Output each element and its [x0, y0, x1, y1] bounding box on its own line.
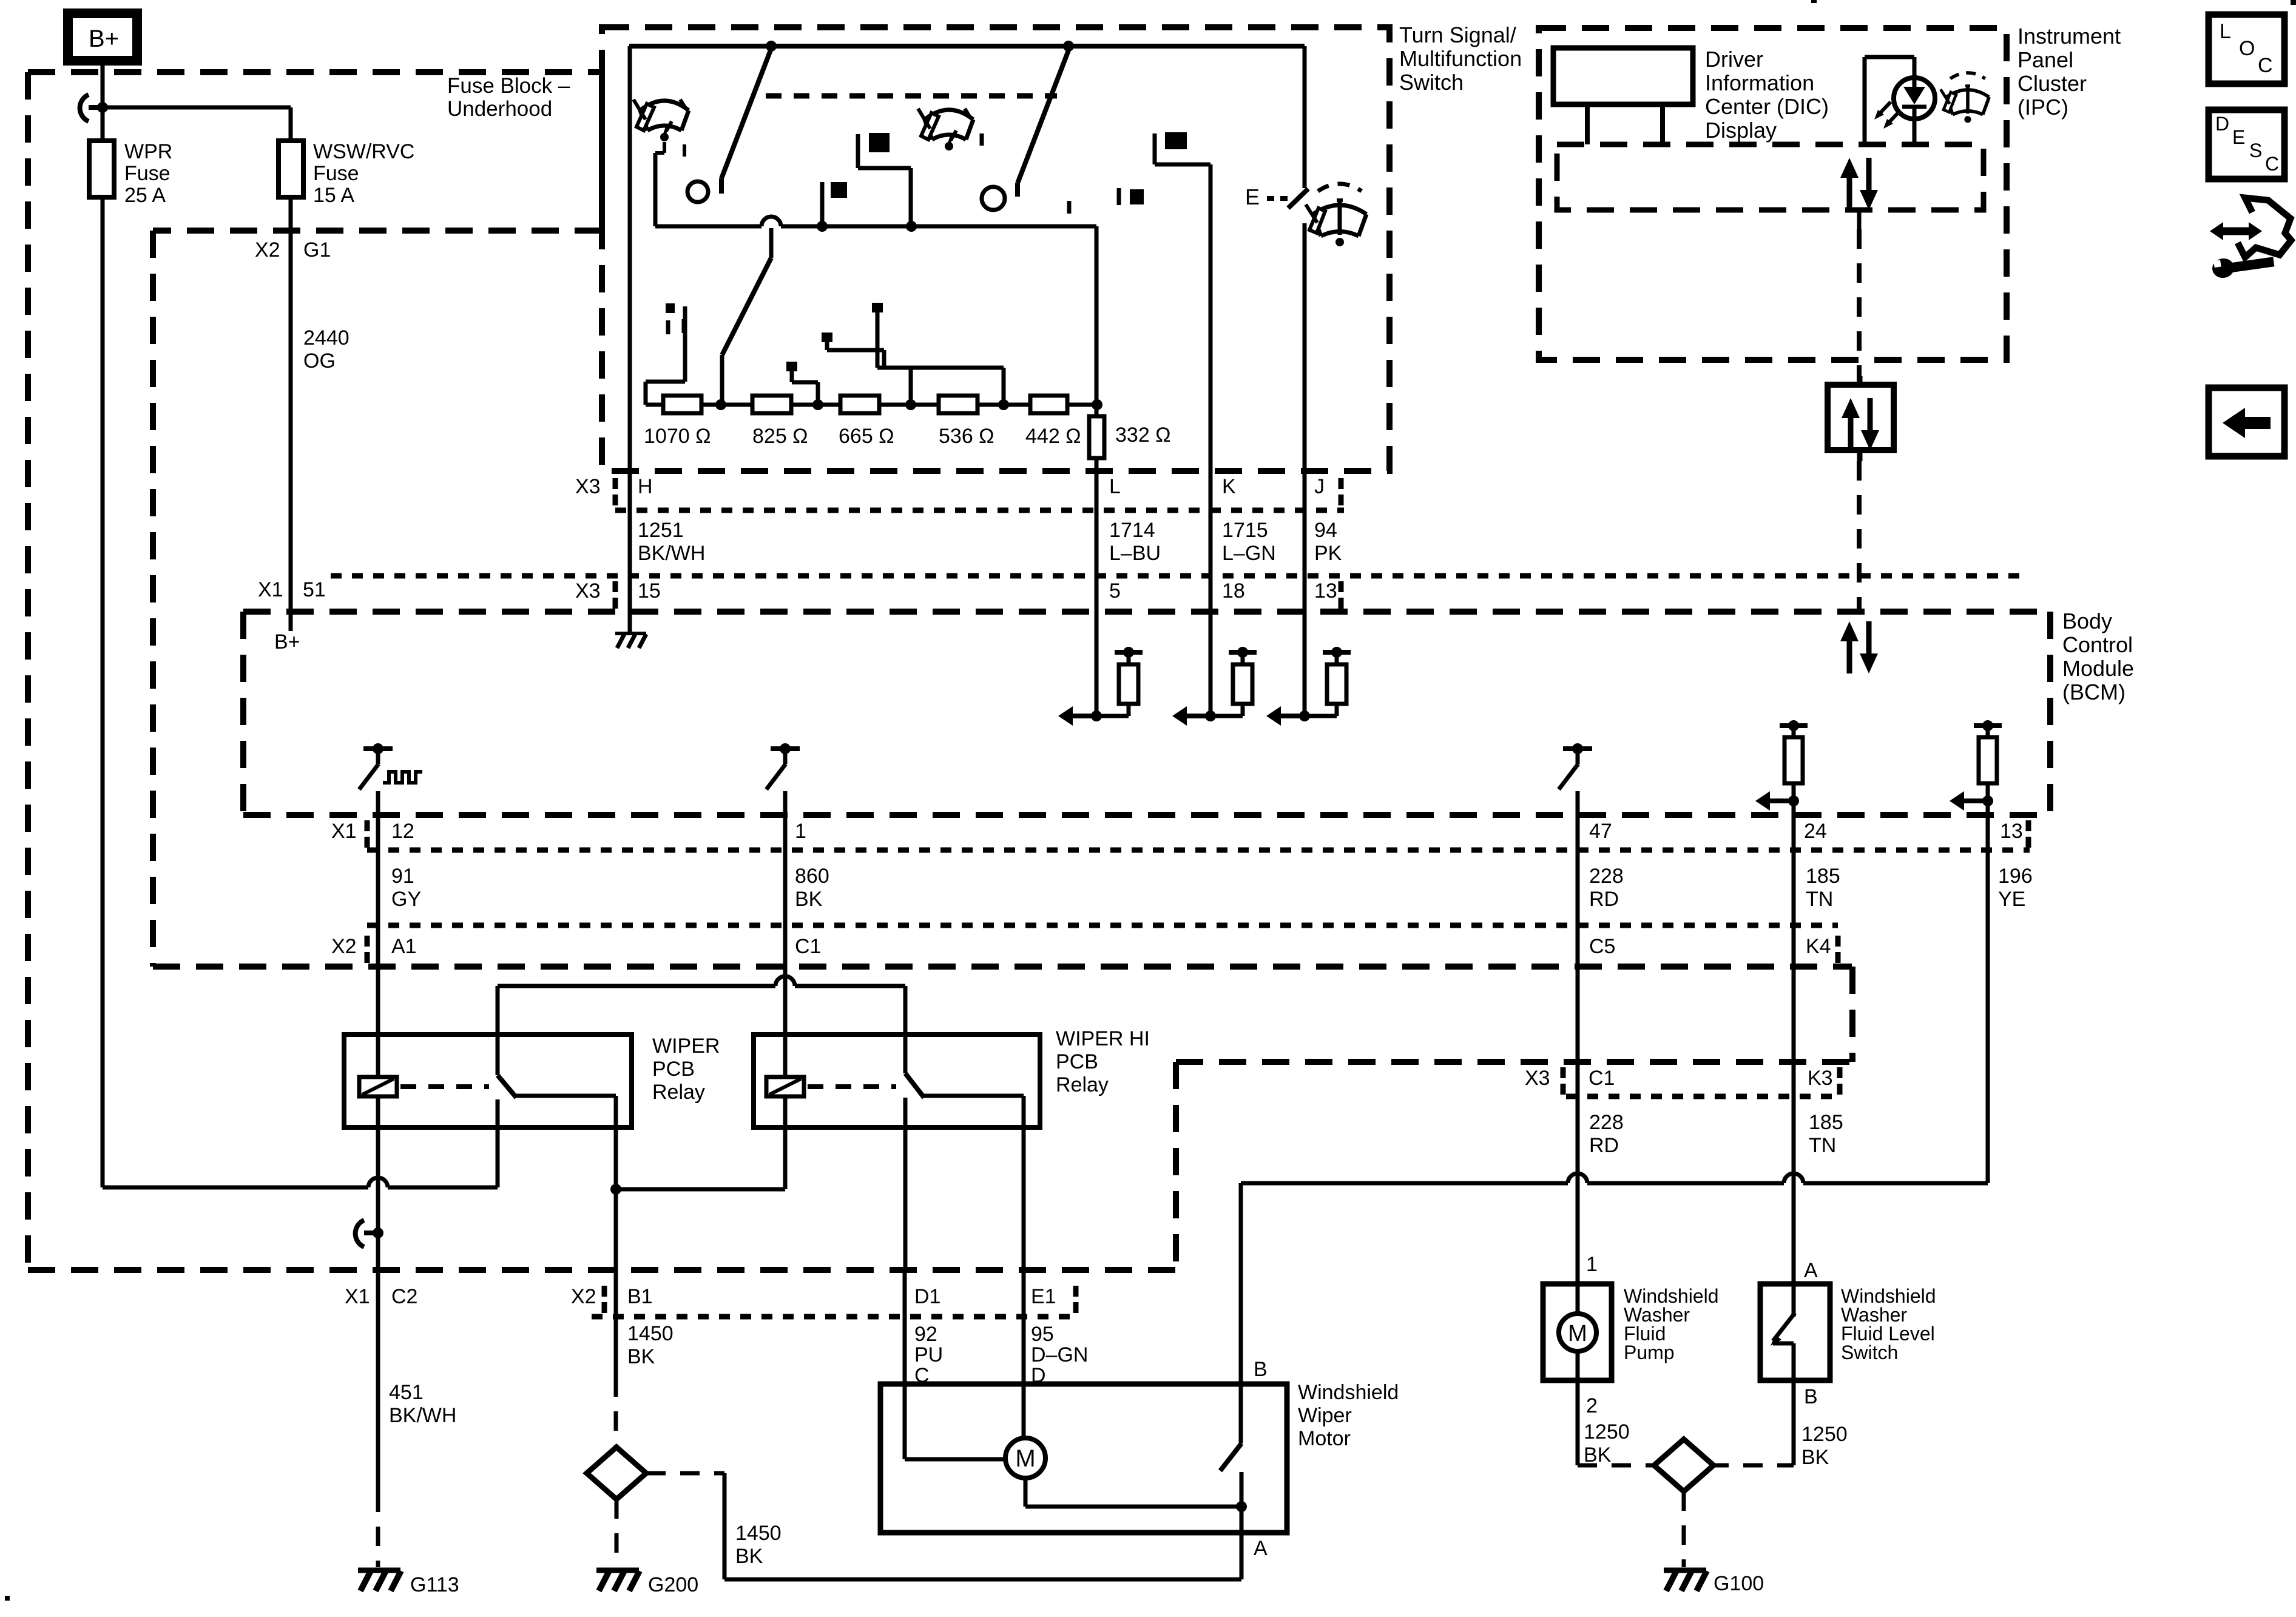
- icon box arrow left: [2209, 388, 2284, 456]
- svg-text:1450: 1450: [735, 1522, 782, 1545]
- svg-text:O: O: [2239, 37, 2255, 60]
- wire B+ to WPR fuse: [101, 61, 105, 141]
- bracket after J: [1339, 478, 1344, 489]
- BCM serial arrows: [1840, 621, 1859, 641]
- svg-text:B1: B1: [627, 1285, 653, 1308]
- HI coil return bus: [616, 1187, 785, 1192]
- BCM dashed box: [243, 609, 2050, 615]
- svg-text:L: L: [1109, 475, 1121, 498]
- wire 1450 B1: [614, 1189, 618, 1377]
- relay WIPER HI PCB box: [754, 1035, 1040, 1127]
- svg-text:B: B: [1254, 1358, 1268, 1381]
- motor park switch blade: [1220, 1443, 1241, 1471]
- svg-text:536 Ω: 536 Ω: [939, 425, 994, 448]
- svg-text:C1: C1: [1589, 1067, 1615, 1090]
- svg-text:1715: 1715: [1222, 519, 1268, 542]
- wire 196 YE horizontal: [1241, 1181, 1568, 1186]
- dashed staircase K4-K3: [1849, 967, 1855, 1062]
- svg-text:18: 18: [1222, 579, 1245, 603]
- svg-text:BK: BK: [627, 1345, 655, 1368]
- washer fluid level switch box: [1760, 1284, 1830, 1380]
- svg-text:Windshield: Windshield: [1298, 1381, 1399, 1404]
- resistor 442 ohm: [1030, 396, 1067, 413]
- svg-text:185: 185: [1809, 1111, 1843, 1134]
- wire splice to G100: [1682, 1491, 1686, 1567]
- BCM switch wiper relay drive: [771, 746, 800, 751]
- svg-text:RD: RD: [1589, 888, 1619, 911]
- svg-text:Center (DIC): Center (DIC): [1705, 94, 1829, 119]
- svg-text:B+: B+: [89, 25, 119, 52]
- svg-text:Switch: Switch: [1841, 1342, 1898, 1363]
- BCM input termination pin 13: [1299, 711, 1310, 721]
- fluid switch blade: [1792, 1284, 1796, 1317]
- mechanical link dashed: [766, 93, 1057, 99]
- contact A wire: [856, 134, 860, 168]
- wire B feed: [1239, 1183, 1243, 1443]
- svg-text:G200: G200: [648, 1573, 698, 1596]
- svg-text:PCB: PCB: [652, 1058, 695, 1081]
- svg-text:1: 1: [795, 820, 806, 843]
- svg-text:185: 185: [1806, 865, 1840, 888]
- pin row dotted: [615, 508, 1344, 513]
- svg-text:51: 51: [303, 578, 326, 601]
- relay HI coil link dashed: [808, 1084, 896, 1089]
- svg-text:BK/WH: BK/WH: [389, 1404, 456, 1427]
- dashed drop to D1/E1 row: [1173, 1062, 1179, 1270]
- contact stub right of icon2: [980, 133, 984, 146]
- row2 dotted: [331, 573, 2030, 579]
- battery B+ terminal box: [68, 13, 137, 61]
- svg-text:K3: K3: [1808, 1067, 1833, 1090]
- ground G200: [596, 1568, 639, 1573]
- svg-text:1070 Ω: 1070 Ω: [644, 425, 711, 448]
- splice diamond G200 branch: [587, 1447, 646, 1499]
- svg-text:Control: Control: [2062, 632, 2133, 657]
- dashes E to blade: [1267, 196, 1274, 201]
- wire icon1 to common bus: [663, 142, 666, 153]
- bracket after K3: [1837, 1067, 1843, 1078]
- svg-text:K: K: [1222, 475, 1236, 498]
- wire 451 from relay coil: [376, 1127, 380, 1493]
- svg-text:X3: X3: [575, 579, 601, 603]
- relay HI common pivot: [903, 986, 908, 1073]
- resistor 665 ohm: [840, 396, 879, 413]
- ladder entry left step: [666, 303, 675, 313]
- wiper icon high speed: [925, 110, 973, 120]
- turn signal/multifunction switch dashed box: [602, 27, 1389, 471]
- switch blade 3 (delay wiper): [722, 258, 771, 355]
- page artifact tick: [1811, 0, 1817, 3]
- bottom-left long dashed: [28, 1267, 1176, 1273]
- wire 1450 dashed to splice: [614, 1377, 618, 1447]
- svg-text:OG: OG: [303, 349, 336, 373]
- relay HI coil: [766, 1077, 804, 1096]
- node dot common 1: [817, 221, 828, 232]
- svg-text:Wiper: Wiper: [1298, 1404, 1352, 1427]
- svg-text:Fuse: Fuse: [313, 162, 359, 185]
- BCM input termination pin 18: [1205, 711, 1216, 721]
- svg-text:C: C: [2265, 153, 2279, 175]
- contact rect D: [1130, 189, 1144, 204]
- contact rect C: [1165, 132, 1187, 149]
- switch internal top bus: [629, 44, 1305, 49]
- svg-text:E1: E1: [1031, 1285, 1056, 1308]
- relay output bus to HI relay: [498, 984, 775, 988]
- X1 row bottom dotted: [367, 848, 2030, 853]
- svg-text:B+: B+: [274, 630, 300, 653]
- svg-text:Fuse: Fuse: [124, 162, 171, 185]
- svg-text:(IPC): (IPC): [2017, 95, 2068, 120]
- relay WIPER NO contact: [516, 1094, 616, 1098]
- relay WIPER common pivot: [496, 986, 500, 1075]
- svg-text:92: 92: [914, 1323, 937, 1346]
- svg-text:A1: A1: [391, 935, 417, 958]
- svg-text:442 Ω: 442 Ω: [1025, 425, 1081, 448]
- svg-text:332 Ω: 332 Ω: [1115, 424, 1171, 447]
- svg-text:K4: K4: [1806, 935, 1831, 958]
- svg-text:Underhood: Underhood: [447, 97, 552, 121]
- contact rect B: [831, 182, 847, 198]
- svg-text:1: 1: [1586, 1253, 1598, 1276]
- X2 row bottom dashed: [153, 964, 1852, 970]
- relay WIPER coil: [359, 1077, 397, 1096]
- svg-text:C5: C5: [1589, 935, 1615, 958]
- svg-text:PK: PK: [1314, 542, 1342, 565]
- serial data box: [1828, 385, 1894, 450]
- contact D stub: [1117, 188, 1121, 205]
- svg-text:15: 15: [638, 579, 661, 603]
- wire splice to G200: [615, 1499, 619, 1567]
- X3 row top dashed: [1176, 1059, 1854, 1065]
- IPC inner dashed box: [1557, 144, 1984, 210]
- fuse WSW/RVC 15A: [279, 141, 303, 197]
- motor return riser: [723, 1473, 727, 1579]
- svg-text:1250: 1250: [1801, 1423, 1848, 1446]
- wire J into BCM: [1303, 471, 1307, 716]
- wire J pole lower: [1303, 223, 1307, 471]
- wire 185 TN K4: [1792, 815, 1796, 1284]
- svg-text:TN: TN: [1809, 1134, 1836, 1157]
- ladder junction dots: [715, 399, 726, 410]
- wire 91 GY A1: [376, 815, 380, 1035]
- icon box LOC: [2209, 15, 2284, 84]
- BCM output resistor pin 13: [1974, 723, 2002, 728]
- BCM switch washer drive: [1563, 746, 1592, 751]
- row bottom dotted D1 E1: [592, 1314, 1080, 1320]
- svg-text:Relay: Relay: [1056, 1073, 1109, 1096]
- relay HI blade: [905, 1073, 924, 1098]
- washer pump box: [1543, 1284, 1612, 1380]
- svg-text:C: C: [2258, 54, 2273, 77]
- svg-text:X1: X1: [331, 820, 357, 843]
- BCM switch wiper park: [363, 746, 393, 751]
- svg-text:95: 95: [1031, 1323, 1054, 1346]
- wire H pole: [628, 46, 632, 631]
- svg-text:1450: 1450: [627, 1322, 674, 1345]
- icon box DESC: [2209, 110, 2284, 179]
- resistor ladder wire: [646, 403, 1097, 407]
- fuse WPR 25A: [89, 141, 114, 197]
- wire L into BCM: [1095, 471, 1099, 716]
- relay WIPER PCB box: [344, 1035, 632, 1127]
- svg-text:C1: C1: [795, 935, 821, 958]
- relay HI blade lower wire D1: [903, 1098, 908, 1270]
- svg-text:BK: BK: [1584, 1443, 1612, 1467]
- svg-text:665 Ω: 665 Ω: [839, 425, 894, 448]
- wire 228 RD C5: [1576, 815, 1580, 1284]
- wire H to ground: [628, 612, 632, 632]
- svg-text:WPR: WPR: [124, 140, 172, 163]
- svg-text:S: S: [2249, 140, 2262, 161]
- ladder tap 3: [822, 333, 832, 342]
- svg-text:L: L: [2220, 20, 2231, 43]
- svg-text:X2: X2: [571, 1285, 596, 1308]
- svg-text:451: 451: [389, 1381, 424, 1404]
- relay WIPER lower contact: [496, 1099, 500, 1187]
- svg-text:2: 2: [1586, 1394, 1598, 1417]
- svg-text:H: H: [638, 475, 653, 498]
- svg-text:228: 228: [1589, 865, 1624, 888]
- svg-text:PU: PU: [914, 1343, 943, 1366]
- contact B wire: [820, 182, 825, 226]
- svg-text:D: D: [2215, 113, 2229, 135]
- svg-text:Relay: Relay: [652, 1081, 705, 1104]
- fuse block inner dashed edge x=252: [150, 231, 156, 967]
- ladder tap 2: [786, 362, 797, 371]
- svg-text:E: E: [1245, 184, 1260, 209]
- IPC serial arrows: [1840, 158, 1859, 178]
- relay HI coil lower wire: [783, 1127, 788, 1189]
- ground internal H: [615, 632, 646, 635]
- serial wire upper: [1857, 210, 1862, 229]
- svg-text:24: 24: [1804, 820, 1827, 843]
- splice hook S on 451: [356, 1220, 364, 1247]
- bracket after 13: [2026, 820, 2031, 831]
- svg-text:94: 94: [1314, 519, 1337, 542]
- svg-text:Fuse Block –: Fuse Block –: [447, 74, 570, 98]
- svg-text:Panel: Panel: [2017, 47, 2073, 72]
- svg-text:Information: Information: [1705, 70, 1814, 95]
- X2 row top dotted: [367, 923, 1838, 928]
- svg-text:Instrument: Instrument: [2017, 24, 2121, 49]
- svg-text:196: 196: [1998, 865, 2033, 888]
- contact stub park: [1067, 201, 1072, 214]
- svg-text:TN: TN: [1806, 888, 1833, 911]
- X3 row bottom dotted: [1566, 1094, 1838, 1099]
- svg-text:Driver: Driver: [1705, 47, 1763, 72]
- B+ bus to relay common: [103, 1186, 368, 1190]
- washer switch blade E: [1288, 189, 1308, 208]
- svg-text:BK: BK: [795, 888, 823, 911]
- svg-text:91: 91: [391, 865, 414, 888]
- fuse block left dashed edge: [25, 72, 31, 1270]
- DIC display rect: [1553, 48, 1693, 104]
- wire J pole upper: [1303, 46, 1307, 188]
- ticks small: [666, 320, 670, 334]
- svg-text:YE: YE: [1998, 888, 2025, 911]
- node dot top bus right: [1063, 41, 1074, 52]
- svg-text:WIPER HI: WIPER HI: [1056, 1027, 1150, 1050]
- svg-text:J: J: [1314, 475, 1325, 498]
- svg-text:Multifunction: Multifunction: [1399, 46, 1522, 71]
- svg-text:L–GN: L–GN: [1222, 542, 1276, 565]
- svg-text:1714: 1714: [1109, 519, 1155, 542]
- svg-text:Display: Display: [1705, 118, 1777, 143]
- svg-text:(BCM): (BCM): [2062, 680, 2125, 704]
- svg-text:G113: G113: [410, 1573, 459, 1596]
- svg-text:860: 860: [795, 865, 829, 888]
- svg-text:X1: X1: [258, 578, 283, 601]
- BCM output resistor pin 24: [1780, 723, 1808, 728]
- fuse block - underhood dashed box: [28, 69, 602, 75]
- contact rect A: [869, 133, 890, 152]
- resistor 536 ohm: [939, 396, 977, 413]
- svg-text:228: 228: [1589, 1111, 1624, 1134]
- svg-text:D–GN: D–GN: [1031, 1343, 1088, 1366]
- DIC legs: [1585, 104, 1590, 144]
- svg-text:PCB: PCB: [1056, 1050, 1098, 1073]
- svg-text:L–BU: L–BU: [1109, 542, 1161, 565]
- windshield wiper motor box: [880, 1384, 1287, 1533]
- ladder tap 4: [872, 303, 883, 312]
- contact circle LO: [982, 187, 1005, 210]
- svg-text:A: A: [1254, 1537, 1268, 1560]
- LED arrows: [1887, 111, 1900, 124]
- node dot common 2: [906, 221, 917, 232]
- wire 92 into motor: [903, 1270, 907, 1459]
- svg-text:B: B: [1804, 1385, 1818, 1408]
- switch blade 1 (wiper on/off): [721, 49, 771, 178]
- svg-text:Pump: Pump: [1624, 1342, 1675, 1363]
- svg-text:1251: 1251: [638, 519, 684, 542]
- switch common bus: [655, 224, 761, 229]
- stub below hop: [769, 228, 774, 258]
- LED indicator: [1894, 78, 1935, 119]
- relay HI NO contact: [924, 1094, 1024, 1098]
- wire pump to splice: [1576, 1380, 1580, 1465]
- motor M symbol: [1005, 1438, 1045, 1478]
- svg-text:BK: BK: [735, 1545, 763, 1568]
- resistor 332 ohm: [1089, 416, 1104, 458]
- svg-text:15 A: 15 A: [313, 184, 354, 207]
- svg-text:Module: Module: [2062, 656, 2134, 681]
- svg-text:X3: X3: [1525, 1067, 1550, 1090]
- wiper icon low speed: [640, 101, 689, 110]
- wire WSW fuse output 2440 OG: [289, 197, 293, 612]
- motor brush return: [1024, 1478, 1028, 1507]
- svg-text:Cluster: Cluster: [2017, 71, 2087, 96]
- svg-text:13: 13: [2000, 820, 2023, 843]
- splice diamond G100: [1654, 1439, 1714, 1491]
- svg-text:WIPER: WIPER: [652, 1035, 720, 1058]
- serial wire lower: [1857, 461, 1862, 612]
- wire 196 YE: [1986, 815, 1990, 1183]
- wire 451 dashed to G113: [376, 1493, 380, 1567]
- wire B+ into BCM: [289, 612, 293, 631]
- IPC dashed box: [1539, 28, 2007, 360]
- svg-text:X3: X3: [575, 475, 601, 498]
- svg-text:2440: 2440: [303, 326, 349, 349]
- ground G100: [1664, 1568, 1706, 1573]
- svg-text:A: A: [1804, 1259, 1818, 1282]
- pump M symbol: [1559, 1314, 1596, 1351]
- relay WIPER coil link dashed: [400, 1084, 489, 1089]
- wire 860 BK C1: [783, 815, 788, 1035]
- wire 95 into motor: [1022, 1270, 1026, 1438]
- svg-text:Switch: Switch: [1399, 70, 1464, 95]
- resistor 825 ohm: [752, 396, 791, 413]
- splice hook at fuse feed: [80, 95, 89, 121]
- svg-text:E: E: [2232, 126, 2245, 148]
- svg-text:RD: RD: [1589, 1134, 1619, 1157]
- svg-text:G1: G1: [303, 238, 331, 262]
- svg-text:M: M: [1568, 1321, 1587, 1346]
- svg-text:D1: D1: [914, 1285, 940, 1308]
- wire fluid switch to splice: [1792, 1381, 1796, 1465]
- wire WPR fuse output 451-feed: [101, 197, 105, 1187]
- svg-text:X1: X1: [345, 1285, 370, 1308]
- relay WIPER blade: [498, 1075, 516, 1098]
- svg-text:BK: BK: [1801, 1446, 1829, 1469]
- contact circle OFF: [687, 181, 708, 202]
- svg-text:Turn Signal/: Turn Signal/: [1399, 22, 1516, 47]
- wire A out of motor: [1240, 1507, 1244, 1579]
- svg-text:C2: C2: [391, 1285, 417, 1308]
- splice to motor return dashed: [646, 1471, 724, 1476]
- svg-text:25 A: 25 A: [124, 184, 166, 207]
- resistor 1070 ohm: [663, 396, 701, 413]
- wire K into BCM: [1209, 471, 1213, 716]
- svg-text:M: M: [1015, 1445, 1035, 1472]
- diagnostic icon: [2238, 198, 2291, 257]
- svg-text:Body: Body: [2062, 609, 2112, 633]
- switch blade 2 (hi/lo select): [1018, 50, 1069, 183]
- motor park contact: [1240, 1472, 1244, 1507]
- svg-text:Motor: Motor: [1298, 1427, 1351, 1450]
- svg-text:BK/WH: BK/WH: [638, 542, 705, 565]
- wire branch to WSW fuse: [103, 106, 291, 110]
- svg-text:12: 12: [391, 820, 414, 843]
- svg-text:13: 13: [1314, 579, 1337, 603]
- svg-text:47: 47: [1589, 820, 1612, 843]
- node dot top bus left: [766, 41, 777, 52]
- bracket after K4: [1835, 936, 1841, 947]
- washer icon: [1306, 184, 1366, 246]
- svg-text:X2: X2: [331, 935, 357, 958]
- LED indicator wire: [1863, 57, 1867, 144]
- BCM input termination pin 5: [1091, 711, 1102, 721]
- svg-text:G100: G100: [1714, 1572, 1764, 1595]
- IPC washer icon: [1940, 73, 1989, 123]
- svg-text:1250: 1250: [1584, 1420, 1630, 1443]
- svg-text:825 Ω: 825 Ω: [752, 425, 808, 448]
- svg-text:WSW/RVC: WSW/RVC: [313, 140, 414, 163]
- svg-text:X2: X2: [255, 238, 280, 262]
- wire L pole upper: [1095, 226, 1099, 405]
- wire K pole from contact C: [1153, 133, 1157, 164]
- ground G113: [358, 1568, 400, 1573]
- svg-text:GY: GY: [391, 888, 421, 911]
- svg-text:5: 5: [1109, 579, 1121, 603]
- bracket after 13 row2: [1339, 581, 1344, 592]
